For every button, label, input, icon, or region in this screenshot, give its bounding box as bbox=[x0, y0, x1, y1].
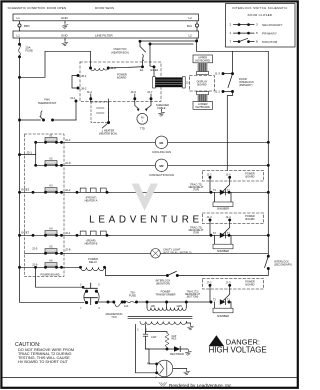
terminal J1-3 bbox=[215, 72, 233, 76]
svg-text:BLU: BLU bbox=[187, 24, 192, 28]
svg-text:GND: GND bbox=[61, 16, 69, 20]
legend primary switch row bbox=[230, 31, 278, 35]
svg-text:K3: K3 bbox=[49, 185, 53, 188]
svg-text:L2: L2 bbox=[189, 16, 193, 20]
svg-text:T2: T2 bbox=[213, 232, 217, 235]
svg-text:DOOR SENS: DOOR SENS bbox=[95, 6, 114, 10]
svg-text:RECTIFIER: RECTIFIER bbox=[170, 352, 184, 356]
relay K1 bbox=[44, 135, 62, 144]
svg-text:TCO: TCO bbox=[111, 315, 116, 319]
rail transformer primary bbox=[98, 301, 231, 303]
line filter box bbox=[13, 31, 199, 38]
svg-text:L1: L1 bbox=[17, 16, 21, 20]
shielded cable label bbox=[156, 103, 169, 110]
dot K3 left rail bbox=[18, 191, 20, 193]
HV capacitor bbox=[143, 333, 156, 340]
measure note triac 1 bbox=[189, 183, 204, 191]
left rail wire bbox=[20, 38, 85, 302]
svg-text:MONITOR: MONITOR bbox=[262, 40, 278, 44]
svg-text:J1-6: J1-6 bbox=[226, 172, 232, 176]
magnetron tube bbox=[147, 360, 173, 379]
svg-text:HEATER B: HEATER B bbox=[85, 241, 98, 245]
rail K6 transformer feed bbox=[20, 266, 81, 268]
power transformer label bbox=[155, 289, 175, 296]
svg-text:11A: 11A bbox=[124, 305, 129, 308]
fuse 20A bbox=[18, 43, 33, 58]
wire monitor connector top feed bbox=[36, 267, 84, 287]
dot K6 left rail bbox=[18, 266, 20, 268]
svg-text:CAP: CAP bbox=[151, 335, 157, 339]
triac 1 bbox=[210, 189, 230, 195]
measure note triac 2 bbox=[189, 226, 204, 234]
heater box thermostat label bbox=[99, 128, 117, 135]
interlock monitor switch bbox=[166, 271, 178, 276]
svg-text:HV BOARD TO SHORT OUT: HV BOARD TO SHORT OUT bbox=[18, 360, 69, 364]
svg-text:KEYBOARD: KEYBOARD bbox=[195, 105, 210, 109]
danger text bbox=[209, 338, 267, 355]
dot K1 right rail bbox=[267, 141, 269, 143]
turntable motor TTM bbox=[135, 99, 151, 131]
svg-text:BOARD: BOARD bbox=[246, 283, 255, 286]
svg-text:J2-8: J2-8 bbox=[65, 248, 71, 252]
lower keyboard box bbox=[193, 102, 213, 110]
rail K2 convection fan bbox=[36, 164, 269, 166]
dot K6 branch bbox=[34, 266, 36, 268]
rail K5 cavity light bbox=[25, 252, 268, 254]
watermark logo V bbox=[132, 184, 159, 211]
svg-text:HEATER A: HEATER A bbox=[85, 198, 98, 202]
svg-text:J2: J2 bbox=[186, 82, 189, 85]
ground (upper GND) bbox=[62, 21, 68, 29]
svg-text:FUSE: FUSE bbox=[26, 48, 34, 52]
svg-text:K5: K5 bbox=[49, 246, 53, 249]
svg-text:L2: L2 bbox=[189, 33, 193, 37]
transformer core bbox=[128, 317, 192, 319]
upper keyboard ribbon bbox=[196, 63, 208, 75]
svg-text:11B: 11B bbox=[151, 305, 156, 308]
fan thermostat label bbox=[38, 98, 57, 105]
cavity light bbox=[151, 247, 192, 258]
svg-text:K4: K4 bbox=[49, 228, 53, 231]
wire coil to E1 bbox=[108, 67, 142, 68]
svg-text:COOLING FAN: COOLING FAN bbox=[152, 150, 171, 154]
HV cap branch wire bbox=[145, 325, 147, 333]
HV node wires bbox=[146, 332, 175, 349]
dot wire A bbox=[139, 40, 141, 42]
terminal E3/E2 bbox=[151, 66, 159, 72]
svg-text:(HEATER BOX): (HEATER BOX) bbox=[99, 131, 117, 135]
inductor K6 row bbox=[79, 266, 105, 271]
svg-text:2: 2 bbox=[230, 23, 232, 27]
dot rail3 a bbox=[107, 301, 109, 303]
oven TCO label bbox=[111, 48, 129, 54]
wire interlock primary top bbox=[232, 51, 234, 72]
svg-text:BOARD: BOARD bbox=[117, 76, 126, 80]
bleed resistor bbox=[165, 333, 177, 349]
convection fan motor bbox=[149, 159, 174, 177]
svg-text:T2: T2 bbox=[213, 189, 217, 192]
wire interlock primary bottom to power board 2 bbox=[227, 93, 232, 171]
junction dot bbox=[18, 76, 20, 78]
power board 1 dashed box bbox=[80, 62, 161, 102]
terminal J1-1 bbox=[215, 90, 233, 94]
svg-text:SECONDARY: SECONDARY bbox=[262, 23, 283, 27]
svg-text:HIGH VOLTAGE: HIGH VOLTAGE bbox=[209, 345, 267, 354]
svg-text:3: 3 bbox=[80, 284, 82, 287]
relay K2 bbox=[44, 158, 62, 167]
svg-text:DOOR CLOSED: DOOR CLOSED bbox=[248, 13, 273, 17]
footer divider line bbox=[3, 377, 297, 379]
right rail wire bbox=[267, 51, 269, 256]
svg-text:J2-2: J2-2 bbox=[65, 188, 71, 192]
rail K1 cooling fan bbox=[36, 141, 269, 143]
svg-text:M1: M1 bbox=[159, 141, 163, 145]
svg-text:J2-4: J2-4 bbox=[65, 138, 71, 142]
svg-text:M2: M2 bbox=[159, 164, 163, 168]
interlock switch schematic legend box bbox=[226, 4, 296, 47]
svg-text:RELAY: RELAY bbox=[89, 260, 98, 264]
triac 3 bbox=[210, 299, 230, 305]
monitor connector assembly bbox=[80, 283, 100, 310]
svg-text:LINE FILTER: LINE FILTER bbox=[95, 33, 113, 37]
relay K6 bbox=[44, 260, 62, 269]
svg-text:5: 5 bbox=[256, 31, 258, 35]
diode ground bbox=[185, 349, 191, 355]
svg-text:J1-3: J1-3 bbox=[207, 215, 213, 219]
power board 1 label bbox=[117, 73, 127, 80]
fan thermostat switch bbox=[18, 111, 76, 121]
inductor on power board bbox=[89, 66, 116, 70]
node L1 bus box (top) bbox=[13, 14, 199, 21]
svg-text:(TOP): (TOP) bbox=[193, 232, 200, 234]
relay K4 bbox=[32, 228, 63, 237]
svg-text:K2: K2 bbox=[49, 158, 53, 161]
svg-text:(PRIMARY): (PRIMARY) bbox=[239, 83, 253, 87]
svg-text:4: 4 bbox=[98, 307, 100, 310]
secondary ground bbox=[186, 322, 193, 330]
svg-text:J7-3: J7-3 bbox=[226, 280, 232, 284]
terminal circle BRN bbox=[18, 24, 21, 27]
svg-text:3: 3 bbox=[137, 329, 139, 332]
svg-text:K1: K1 bbox=[49, 135, 53, 138]
svg-text:J8-1: J8-1 bbox=[81, 74, 87, 78]
wire keyboard feed to right rail bbox=[197, 41, 269, 51]
terminal J4-5 bbox=[131, 90, 137, 100]
svg-text:THERMOSTAT: THERMOSTAT bbox=[38, 101, 57, 105]
svg-text:SCHEMATIC CONDITION: DOOR OPEN: SCHEMATIC CONDITION: DOOR OPEN bbox=[8, 6, 67, 10]
svg-text:J4-5: J4-5 bbox=[131, 90, 137, 94]
junction dot L2 bbox=[196, 40, 198, 42]
lower keyboard ribbon bbox=[196, 92, 208, 102]
wire fuse branch to power board coil bbox=[20, 51, 91, 77]
wire to E3/E2 bbox=[150, 44, 154, 77]
legend secondary switch row bbox=[230, 23, 283, 27]
triac 3 terminal drops bbox=[209, 284, 231, 302]
fuse 75A bbox=[123, 291, 137, 304]
dot K2 right rail bbox=[267, 164, 269, 166]
svg-text:SNUBBER: SNUBBER bbox=[217, 315, 229, 318]
door interlock primary label bbox=[239, 77, 254, 87]
svg-text:(TOP): (TOP) bbox=[193, 189, 200, 191]
cooling fan motor bbox=[152, 136, 171, 154]
svg-text:T2: T2 bbox=[213, 299, 217, 302]
svg-text:BOARD: BOARD bbox=[197, 83, 206, 87]
door interlock primary switch bbox=[228, 73, 234, 93]
svg-text:1: 1 bbox=[230, 31, 232, 35]
svg-text:BOARD: BOARD bbox=[246, 218, 255, 221]
svg-text:GRN: GRN bbox=[177, 305, 183, 308]
relay label bbox=[88, 257, 98, 264]
rectifier diode bbox=[170, 346, 186, 356]
svg-text:E4/E7: E4/E7 bbox=[22, 231, 30, 235]
measure note triac 3 bbox=[185, 290, 200, 298]
svg-text:INTERLOCK SWITCH SCHEMATIC: INTERLOCK SWITCH SCHEMATIC bbox=[232, 6, 287, 10]
svg-text:(HEATER BOX): (HEATER BOX) bbox=[111, 51, 129, 54]
svg-text:SNUBBER: SNUBBER bbox=[217, 208, 229, 211]
svg-text:KEYBOARD: KEYBOARD bbox=[195, 59, 210, 63]
svg-text:PRIMARY: PRIMARY bbox=[262, 31, 277, 35]
svg-text:J2-9: J2-9 bbox=[65, 161, 71, 165]
dot wire B bbox=[149, 43, 151, 45]
svg-text:3: 3 bbox=[256, 23, 258, 27]
svg-text:E1: E1 bbox=[140, 68, 144, 72]
legend monitor switch row bbox=[230, 38, 279, 43]
svg-text:8: 8 bbox=[256, 40, 258, 44]
svg-text:LEADVENTURE: LEADVENTURE bbox=[89, 215, 203, 226]
svg-text:FA: FA bbox=[147, 362, 150, 366]
svg-text:CONVECTION FAN: CONVECTION FAN bbox=[149, 173, 174, 177]
magnetron anode ground bbox=[173, 369, 190, 375]
svg-text:J4-2: J4-2 bbox=[87, 90, 93, 94]
terminal J4-1 bbox=[70, 96, 77, 120]
door sense dashed box bbox=[91, 99, 109, 123]
triac 3 dashed box bbox=[203, 278, 264, 289]
snubber 2 bbox=[213, 235, 233, 253]
svg-text:SNUBBER: SNUBBER bbox=[217, 250, 229, 253]
svg-text:(NOT ON ALL MODELS): (NOT ON ALL MODELS) bbox=[163, 251, 192, 255]
svg-text:J7-2: J7-2 bbox=[207, 280, 213, 284]
relay K5 bbox=[44, 246, 62, 255]
footer logo bbox=[159, 383, 167, 387]
svg-text:J4-7: J4-7 bbox=[147, 90, 153, 94]
svg-text:J3-1: J3-1 bbox=[27, 150, 33, 154]
triac 1 dashed box bbox=[203, 170, 264, 181]
svg-text:BOARD: BOARD bbox=[246, 175, 255, 178]
svg-text:TTD: TTD bbox=[140, 127, 145, 131]
dot K4 left rail bbox=[18, 234, 20, 236]
J8 jumper bracket wire bbox=[72, 76, 78, 89]
relay K3 bbox=[32, 185, 63, 194]
display ribbon cable bbox=[153, 77, 190, 88]
svg-text:GND: GND bbox=[61, 33, 69, 37]
feed wire to K1/K2 bbox=[18, 141, 36, 166]
shielded cable ground bbox=[159, 110, 165, 117]
snubber 3 bbox=[213, 302, 233, 318]
svg-text:J1-1: J1-1 bbox=[215, 90, 221, 94]
wire K6 to lower feed bbox=[105, 267, 106, 275]
terminal E1 bbox=[140, 66, 144, 72]
svg-text:J1-3: J1-3 bbox=[215, 72, 221, 76]
dot K4 right rail bbox=[267, 234, 269, 236]
dot K3 right rail bbox=[267, 191, 269, 193]
interlock secondary label bbox=[274, 259, 292, 266]
svg-text:Rendered by LeadVenture, Inc: Rendered by LeadVenture, Inc bbox=[169, 383, 232, 388]
relay board dashed box bbox=[25, 134, 65, 277]
svg-text:5: 5 bbox=[98, 284, 100, 287]
magnetron TCO bbox=[106, 301, 124, 319]
transformer primary winding bbox=[124, 301, 187, 311]
svg-text:CAUTION:: CAUTION: bbox=[15, 342, 41, 348]
svg-text:J2-1: J2-1 bbox=[65, 231, 71, 235]
dot HV node bbox=[166, 348, 168, 350]
svg-text:RES: RES bbox=[172, 339, 177, 341]
svg-text:CAP: CAP bbox=[172, 335, 177, 338]
svg-text:J1-4: J1-4 bbox=[226, 215, 232, 219]
svg-text:E4/E3: E4/E3 bbox=[22, 188, 30, 192]
snubber 1 bbox=[213, 192, 233, 210]
svg-text:BRN: BRN bbox=[24, 24, 30, 28]
svg-text:(MONITOR): (MONITOR) bbox=[156, 281, 170, 285]
triac 1 terminal drops bbox=[209, 176, 231, 192]
upper keyboard box bbox=[193, 55, 213, 63]
rail K4 heater B bbox=[20, 234, 269, 236]
svg-text:FUSE: FUSE bbox=[129, 294, 136, 298]
interlock monitor label bbox=[156, 278, 171, 285]
heater A element bbox=[76, 188, 110, 202]
triac 2 terminal drops bbox=[209, 219, 231, 236]
heater box thermostat switch bbox=[102, 99, 110, 128]
svg-text:M: M bbox=[141, 116, 144, 120]
svg-text:7: 7 bbox=[80, 307, 82, 310]
terminal J4-2 bbox=[87, 90, 93, 100]
filament top wire bbox=[146, 349, 157, 364]
terminal J4-7 bbox=[147, 90, 153, 100]
svg-text:(BOTTOM): (BOTTOM) bbox=[187, 296, 199, 298]
interlock secondary switch bbox=[265, 255, 270, 270]
svg-text:J1-2: J1-2 bbox=[207, 172, 213, 176]
heater B element bbox=[76, 231, 110, 245]
svg-text:J4-1: J4-1 bbox=[70, 96, 76, 100]
svg-text:E3/E2: E3/E2 bbox=[151, 68, 159, 72]
HV filament wire left bbox=[136, 325, 157, 373]
svg-text:POWER BOARD: POWER BOARD bbox=[41, 274, 60, 277]
terminal J8-2 bbox=[77, 86, 87, 90]
danger triangle bbox=[209, 335, 225, 347]
display board dashed box bbox=[190, 76, 215, 91]
svg-text:L1: L1 bbox=[17, 33, 21, 37]
svg-text:1: 1 bbox=[142, 121, 144, 123]
oven TCO switch bbox=[140, 41, 146, 66]
svg-text:7: 7 bbox=[230, 40, 232, 44]
caution text block bbox=[15, 342, 74, 364]
triac 2 dashed box bbox=[203, 213, 264, 224]
terminal J8-1 bbox=[77, 74, 87, 78]
svg-text:(SECONDARY): (SECONDARY) bbox=[274, 262, 292, 266]
rail K3 heater A bbox=[20, 191, 269, 193]
wire L1 between buses bbox=[19, 21, 21, 31]
lower feed wire bbox=[106, 269, 269, 275]
terminal circle BLU bbox=[195, 24, 198, 27]
wire L2 between buses bbox=[196, 21, 198, 31]
svg-text:J2-5: J2-5 bbox=[32, 247, 38, 251]
svg-text:K6: K6 bbox=[49, 260, 53, 263]
ground (below line filter) bbox=[62, 38, 68, 46]
triac 2 bbox=[210, 232, 230, 238]
wire L2 drop from line filter bbox=[140, 38, 197, 44]
transformer secondary winding bbox=[137, 322, 186, 332]
svg-text:TRANSFORMER: TRANSFORMER bbox=[155, 292, 175, 296]
